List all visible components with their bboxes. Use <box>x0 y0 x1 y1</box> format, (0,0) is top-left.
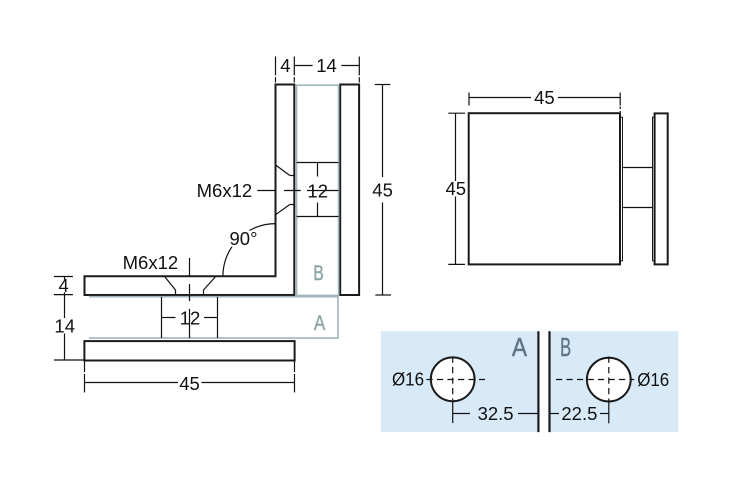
svg-text:90°: 90° <box>230 228 258 249</box>
svg-text:M6x12: M6x12 <box>197 180 253 201</box>
left dims 4 and 14 <box>54 277 85 361</box>
svg-text:B: B <box>560 332 571 362</box>
dim 12 in glass B <box>317 163 319 217</box>
dim 45 horizontal top-right <box>469 93 620 113</box>
svg-text:45: 45 <box>534 87 555 108</box>
svg-text:22.5: 22.5 <box>561 403 597 424</box>
center lines circle B <box>556 357 634 424</box>
svg-text:32.5: 32.5 <box>478 403 514 424</box>
svg-text:14: 14 <box>54 315 75 336</box>
svg-text:Ø16: Ø16 <box>637 369 669 390</box>
bushing neck <box>623 167 652 169</box>
svg-text:M6x12: M6x12 <box>123 252 179 273</box>
hole lines in glass A <box>162 297 218 338</box>
bracket body L outline <box>85 85 295 296</box>
clamp disc <box>655 113 668 264</box>
screw axis center line (vertical, horizontal plate) <box>189 258 191 338</box>
svg-text:4: 4 <box>59 275 69 296</box>
hole lines in glass B <box>297 163 339 217</box>
dim 22.5 <box>550 413 609 415</box>
circle A <box>431 357 475 401</box>
gasket left <box>621 117 623 261</box>
clamp disc horizontal leg <box>84 341 294 360</box>
countersink vertical plate <box>276 165 295 215</box>
glass B vertical <box>297 85 339 295</box>
svg-text:45: 45 <box>446 178 467 199</box>
svg-text:45: 45 <box>179 373 200 394</box>
clamp disc vertical leg <box>340 85 359 296</box>
center lines circle A <box>427 357 486 424</box>
glass A horizontal (open left end) <box>89 297 338 338</box>
dim 32.5 <box>453 413 539 415</box>
svg-text:A: A <box>512 332 528 362</box>
svg-text:Ø16: Ø16 <box>392 369 424 390</box>
gasket right <box>653 117 655 261</box>
bottom dim 45 <box>85 361 295 393</box>
svg-text:14: 14 <box>316 55 337 76</box>
svg-text:B: B <box>313 262 324 285</box>
right dim 45 vertical <box>375 85 391 296</box>
90 deg arc <box>223 224 276 277</box>
svg-text:A: A <box>314 312 326 335</box>
glass panes (light outline) <box>89 85 339 338</box>
countersink horizontal plate <box>165 277 215 295</box>
dim 45 vertical top-right <box>448 113 465 264</box>
svg-text:45: 45 <box>372 179 393 200</box>
svg-text:4: 4 <box>280 55 290 76</box>
circle B <box>587 358 631 402</box>
body plate square <box>469 113 620 264</box>
screw axis center line (horizontal, vertical plate) <box>257 190 338 192</box>
top dims 4 and 14 <box>276 57 360 83</box>
dim 12 in glass A <box>162 317 218 319</box>
